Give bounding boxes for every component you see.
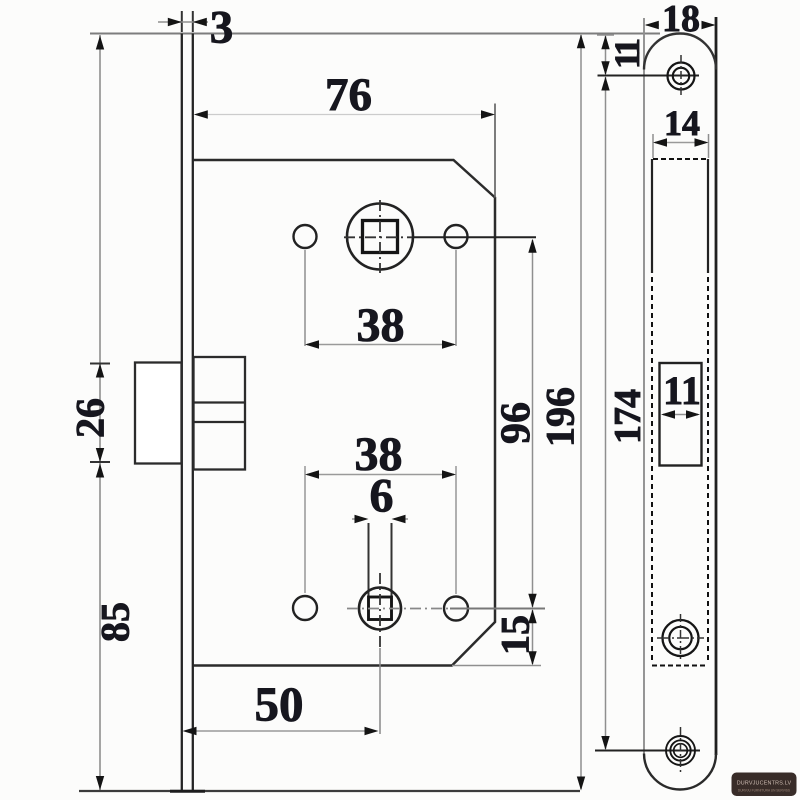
bottom extension line [79, 790, 580, 792]
upper 38 extension lines [304, 250, 306, 346]
dimension 38 upper [307, 344, 454, 346]
lower left hole [293, 596, 317, 620]
dimension 76 [196, 114, 493, 116]
left chain bottom arrow [96, 776, 104, 790]
faceplate side view [181, 34, 183, 792]
svg-text:DURVJUCENTRS.LV: DURVJUCENTRS.LV [737, 781, 792, 787]
svg-text:85: 85 [93, 602, 138, 642]
svg-text:18: 18 [662, 0, 700, 40]
dimension 11 keep [663, 414, 698, 416]
latch bolt protruding [135, 363, 182, 464]
svg-text:76: 76 [325, 69, 372, 121]
dimension 174 [605, 77, 607, 749]
upper square hole [363, 221, 398, 253]
svg-text:3: 3 [210, 2, 234, 54]
dimension 38 lower [307, 474, 454, 476]
top screw hole [668, 63, 695, 90]
watermark badge [732, 773, 797, 797]
middle screw hole [663, 620, 699, 656]
right edge extension up [494, 104, 496, 198]
dimension 14 [655, 142, 706, 144]
svg-text:26: 26 [68, 398, 113, 438]
dimension 3 ticks [181, 11, 183, 32]
lock case outline [194, 160, 496, 666]
left chain dimension line [99, 35, 101, 790]
upper right hole [445, 225, 468, 248]
strike plate left edge [643, 18, 645, 754]
lower 38 extension lines [304, 466, 306, 593]
lower crosshair vertical [379, 573, 381, 648]
svg-text:96: 96 [494, 402, 540, 444]
tick at latch bottom [90, 461, 110, 463]
dimension 14 extensions [652, 134, 654, 158]
follower slot lines [368, 523, 370, 598]
strike plate bottom arc [644, 754, 716, 790]
bottom screw hole [666, 736, 695, 765]
svg-text:6: 6 [370, 470, 394, 523]
svg-text:11: 11 [663, 368, 701, 413]
upper crosshair vertical [379, 200, 381, 273]
dashed top [653, 158, 707, 160]
plate inner hidden dashed [651, 277, 653, 664]
left chain top arrow [96, 36, 104, 50]
tick at latch top [90, 363, 110, 365]
dashed bottom [652, 665, 708, 667]
svg-text:15: 15 [493, 615, 538, 655]
svg-text:50: 50 [255, 677, 304, 732]
svg-text:11: 11 [607, 39, 647, 69]
dimension 15 [532, 610, 534, 664]
dimension 96 [532, 240, 534, 607]
strike plate top arc [644, 34, 716, 70]
upper spindle circle [347, 204, 413, 270]
svg-text:DURVJU FURNITURA UN SERVISS: DURVJU FURNITURA UN SERVISS [738, 789, 790, 793]
dimension 3 line [158, 21, 208, 23]
lower square hole [369, 597, 392, 620]
case bottom extension right [452, 665, 541, 667]
dimension 18 [646, 24, 659, 26]
top extension line [90, 33, 660, 35]
lower crosshair horizontal [347, 608, 450, 610]
dimension 196 [580, 35, 582, 789]
bottom screw reference line [595, 750, 700, 752]
svg-text:38: 38 [357, 299, 405, 352]
dimension 6 [352, 518, 366, 520]
upper left hole [294, 225, 317, 248]
svg-text:174: 174 [607, 389, 649, 444]
dimension 11 top [597, 34, 614, 36]
latch keep hole 11 [660, 363, 702, 466]
lower right hole [444, 597, 468, 621]
lower spindle circle [359, 588, 401, 630]
svg-text:196: 196 [538, 387, 583, 447]
plate inner opening solid [651, 159, 653, 273]
upper crosshair horizontal [344, 236, 412, 238]
svg-text:14: 14 [664, 103, 700, 143]
latch body inside case [194, 357, 246, 470]
dimension 50 [186, 730, 375, 732]
top screw reference line [598, 75, 700, 77]
strike plate right edge [715, 17, 718, 755]
